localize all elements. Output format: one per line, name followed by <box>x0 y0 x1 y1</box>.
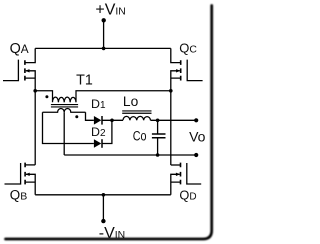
wire T1 center tap to output return <box>63 112 65 155</box>
svg-text:QB: QB <box>10 188 27 203</box>
wire left leg <box>34 91 36 165</box>
junction +VIN on top rail <box>102 47 106 51</box>
T1 core <box>51 105 78 107</box>
junction node B (QC source / QD drain / primary right) <box>169 89 173 93</box>
wire +VIN stub <box>103 20 105 48</box>
T1 secondary phase dot <box>75 115 78 118</box>
node Vo- terminal <box>194 153 198 157</box>
QA body arrow and source lead <box>25 71 35 91</box>
junction D1/D2 cathodes <box>110 119 114 123</box>
wire right leg (crosses output rails) <box>170 91 172 165</box>
junction node A (QA source / QB drain / primary left) <box>33 89 37 93</box>
wire secondary top lead to D1 anode <box>86 112 94 120</box>
node +VIN terminal <box>102 18 106 22</box>
T1 primary phase dot <box>45 95 48 98</box>
junction -VIN on bottom rail <box>102 193 106 197</box>
transistor Q_C <box>171 48 203 90</box>
transformer T1 primary winding <box>35 91 171 103</box>
QA channel bar <box>24 60 26 80</box>
svg-text:QD: QD <box>179 188 196 203</box>
transistor Q_D <box>171 163 201 195</box>
transistor Q_A <box>3 48 35 90</box>
QC body arrow and source lead <box>171 71 181 91</box>
Lo core <box>122 111 151 113</box>
wire output return rail <box>64 154 196 156</box>
diode D1 <box>94 116 102 125</box>
QB body arrow and source lead <box>25 174 35 195</box>
QD gate <box>187 163 201 184</box>
wire output positive rail <box>151 119 197 121</box>
diode D2 <box>94 139 102 148</box>
svg-text:QC: QC <box>179 40 197 55</box>
QC channel bar <box>180 60 182 80</box>
frame shadow (decorative) <box>6 6 212 240</box>
svg-text:Vo: Vo <box>189 128 206 144</box>
svg-text:+VIN: +VIN <box>95 2 125 19</box>
svg-text:Lo: Lo <box>123 94 139 109</box>
QD body arrow and source lead <box>171 174 181 195</box>
wire -VIN stub <box>102 195 104 221</box>
wire secondary bottom lead to D2 anode <box>43 112 94 143</box>
node -VIN terminal <box>101 219 105 223</box>
wire D1 cathode to Lo <box>102 119 123 121</box>
wire top input rail <box>35 47 171 49</box>
QA drain lead <box>25 48 35 62</box>
inductor Lo winding <box>123 116 151 120</box>
QD drain lead <box>171 164 181 166</box>
svg-text:D2: D2 <box>91 125 106 139</box>
svg-text:QA: QA <box>10 41 29 57</box>
junction Co top <box>156 119 160 123</box>
node Vo+ terminal <box>194 118 198 122</box>
QB gate <box>5 163 21 184</box>
svg-text:T1: T1 <box>76 72 93 88</box>
QC gate <box>187 60 202 81</box>
capacitor Co <box>152 120 166 155</box>
junction Co bottom <box>156 153 160 157</box>
transformer T1 secondary winding <box>43 108 86 112</box>
svg-text:Co: Co <box>133 128 147 143</box>
QB channel bar <box>24 163 26 185</box>
svg-text:D1: D1 <box>91 97 106 111</box>
QB drain lead <box>25 164 35 166</box>
wire D2 cathode riser <box>102 121 112 144</box>
transistor Q_B <box>5 163 36 195</box>
wire bottom input rail <box>35 194 171 196</box>
svg-text:-VIN: -VIN <box>99 225 125 242</box>
QD channel bar <box>180 163 182 185</box>
QA gate <box>3 60 18 81</box>
QC drain lead <box>171 48 181 62</box>
